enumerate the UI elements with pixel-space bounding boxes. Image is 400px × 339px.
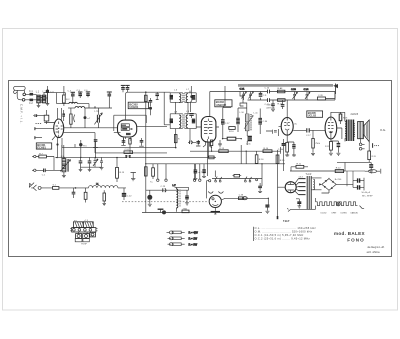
speaker return drop: [368, 142, 377, 163]
dial pointer pulley: [333, 84, 338, 95]
rectifier tube V7: [285, 182, 296, 193]
wire RF upper rail: [210, 92, 335, 117]
capacitor C3 on bus: [46, 89, 54, 104]
resistor R21 on B+: [291, 163, 308, 171]
tube V5 electrodes: [328, 117, 334, 139]
grid box left of V1: [44, 110, 49, 124]
coil core lines: [40, 95, 43, 102]
IFT2 left winding: [179, 115, 181, 128]
node vertical wire: [47, 86, 49, 104]
tube V3 pin wires: [196, 127, 219, 157]
phono rail: [212, 164, 262, 186]
oscillator trimmer CV3: [291, 89, 298, 100]
svg-text:1.TR: 1.TR: [94, 111, 99, 113]
osc caps common return: [81, 166, 102, 168]
vertical wire x207: [207, 139, 209, 176]
svg-text:UCL82: UCL82: [308, 114, 317, 118]
resistor under V2: [129, 139, 131, 153]
padder resistor R7: [318, 92, 336, 101]
long bus y164: [146, 163, 285, 165]
tube V1 electrodes: [56, 122, 63, 138]
phono jack box 2: [83, 234, 90, 239]
junction on mains: [75, 187, 77, 189]
IFT2 core: [183, 115, 184, 129]
ground at node: [46, 104, 50, 106]
tube V1 label box ECH81: [36, 143, 51, 150]
dark cap right of V1: [62, 110, 65, 121]
tuning gang section 1: [94, 108, 102, 128]
bottom jack circle: [162, 210, 166, 214]
coupling capacitor C17: [306, 128, 325, 137]
svg-text:TR.SP: TR.SP: [81, 244, 88, 246]
oscillator coil core arrow: [60, 159, 70, 172]
turntable motor circle: [209, 195, 221, 207]
tube V4 triode envelope: [281, 118, 293, 136]
output transformer primary winding: [345, 121, 346, 142]
pilot lamp: [336, 202, 340, 206]
resistor R8 phono: [36, 153, 54, 158]
bead right of label box: [149, 107, 152, 116]
coupling coil small: [69, 102, 77, 103]
capacitor C1: [26, 90, 37, 96]
series capacitor on upper rail: [265, 88, 270, 94]
switch contact single: [256, 179, 258, 181]
left margin bar 1: [34, 127, 36, 130]
legend row 2: [168, 237, 198, 241]
feed line y147.6: [146, 147, 176, 149]
osc coupling coil: [75, 107, 85, 109]
wire RF lower rail: [248, 99, 336, 101]
resistor under V3: [210, 140, 212, 152]
oscillator trimmer CV4: [304, 89, 311, 100]
ground under L1: [37, 103, 41, 108]
antenna plug jack 2: [22, 99, 25, 102]
tube V2 pin wires: [124, 127, 168, 142]
motor ground plate: [211, 208, 220, 215]
IFT2 left tuned circuit: [170, 114, 183, 129]
tube V3 electrodes: [204, 119, 212, 140]
frequency table bracket: [253, 227, 255, 241]
rail under V3: [209, 156, 214, 159]
resistor R5 on upper rail: [278, 87, 285, 93]
cap under V2 left: [121, 138, 125, 146]
phono input terminal 2: [32, 169, 36, 171]
resistor R2: [63, 86, 71, 106]
svg-text:R.AL: R.AL: [380, 129, 386, 132]
svg-text:UCL82: UCL82: [321, 213, 327, 215]
switch contact pair 2: [245, 177, 252, 183]
IFT2 right winding: [186, 115, 188, 128]
ground bus y162: [337, 162, 371, 171]
resistor R13 on feed: [219, 148, 228, 153]
IFT1 core: [183, 93, 184, 102]
mains resistor R17: [84, 188, 87, 203]
bottom return wire: [287, 208, 315, 211]
IFT1 right tuned circuit: [184, 93, 196, 103]
line to grid caps: [85, 106, 112, 108]
svg-text:SE + SP.SP: SE + SP.SP: [362, 196, 373, 198]
cap under V3 left: [196, 140, 200, 146]
filter cap C20: [369, 162, 373, 173]
chassis bar on bottom wire: [158, 209, 164, 212]
phono jack stems: [78, 232, 92, 234]
tube V1 pin wires: [35, 108, 118, 158]
cap right of label box: [149, 98, 152, 106]
ground osc2: [88, 167, 92, 172]
legend row 3: [168, 242, 198, 246]
coupling line after coil: [77, 104, 89, 108]
smoothing electrolytic: [296, 199, 301, 208]
switch contact pair 1: [215, 177, 222, 183]
osc trimmer C15: [93, 157, 104, 169]
schematic border frame: [9, 81, 392, 257]
detector transformer core: [250, 114, 251, 131]
tube V5 pin wires: [325, 112, 345, 141]
grid resistor drop: [311, 130, 321, 155]
resistor R4 right of IFT: [189, 86, 196, 118]
electrolytic on output: [265, 198, 269, 213]
svg-text:O.M. .........................: O.M. ............................ 520÷16…: [255, 230, 313, 234]
svg-text:FONO: FONO: [347, 237, 365, 242]
svg-text:C.2: C.2: [29, 102, 33, 105]
phono lower boxes: [75, 239, 89, 242]
tube V4 electrodes: [284, 118, 290, 135]
capacitor C29: [236, 114, 240, 128]
tube V4 pin wires: [279, 100, 307, 142]
electrolytic C31: [246, 136, 252, 145]
V3 feed rail: [190, 150, 281, 152]
svg-text:C.M.F. + I.L.: C.M.F. + I.L.: [20, 104, 24, 124]
phono jack box 3: [90, 232, 96, 237]
wire rail join: [334, 92, 336, 101]
dashed coupling line: [122, 201, 207, 203]
resistor R14 on feed: [263, 148, 272, 153]
resistor R22 on B+: [335, 168, 343, 173]
wire step down from rails: [240, 92, 244, 107]
dial cord line: [238, 85, 333, 86]
cap C21 after choke: [102, 190, 106, 205]
resistor R15 vertical: [116, 158, 125, 182]
screen pair lower: [125, 155, 131, 158]
cap drop at 157: [155, 92, 159, 99]
capacitor C6: [84, 90, 90, 97]
verticals detector feed: [241, 145, 280, 164]
svg-text:O.C.2 (25÷31,6 m) ........ 9,4: O.C.2 (25÷31,6 m) ........ 9,45÷12 MHz: [255, 236, 311, 240]
junction blob: [84, 108, 92, 128]
screen rail: [95, 152, 167, 154]
svg-text:T.B.P: T.B.P: [283, 219, 290, 223]
legend row 1: [167, 231, 199, 235]
detector wiring: [223, 108, 279, 145]
trimmer pot T: [131, 173, 136, 181]
speaker: [358, 120, 370, 142]
wire detector top: [223, 86, 247, 108]
svg-text:T.A.R: T.A.R: [306, 173, 312, 176]
lamp branch wire: [146, 187, 189, 194]
capacitor C30b: [258, 114, 268, 128]
V4 cathode resistor: [286, 142, 289, 155]
fuse box on mains: [41, 185, 75, 190]
electrolytic far right: [193, 164, 202, 181]
resistor R11: [222, 137, 242, 140]
phono jack box 1: [76, 234, 82, 239]
svg-text:ZXA: ZXA: [183, 207, 188, 210]
tube V2 UCH81 envelope: [118, 120, 137, 137]
phono connector hatched box 2: [83, 222, 93, 228]
svg-text:arch. ufficina: arch. ufficina: [367, 251, 381, 254]
detector transformer L10 L11: [245, 114, 249, 131]
svg-text:C.17: C.17: [306, 135, 311, 137]
V7 fan wires: [295, 179, 299, 195]
cathode resistor R19: [325, 142, 333, 156]
capacitor C23: [161, 186, 167, 192]
bead component on AVC: [79, 140, 87, 157]
svg-text:R.16: R.16: [259, 159, 264, 161]
dial cord end marker: [373, 143, 379, 148]
left margin dash: [36, 123, 42, 125]
osc capacitor C14: [88, 157, 92, 167]
svg-text:R ≈ 1W: R ≈ 1W: [189, 237, 198, 241]
capacitor C30 between rails: [259, 92, 267, 101]
junction dots on AVC: [116, 157, 117, 158]
svg-text:R.AF: R.AF: [278, 87, 284, 90]
phono output line: [221, 198, 268, 200]
electrolytic drop: [202, 164, 206, 178]
tube V3 UABC80 envelope: [201, 117, 216, 143]
electrolytic left of V4: [278, 139, 286, 171]
V2 enclosure wires: [114, 115, 147, 132]
svg-text:R.25: R.25: [280, 160, 285, 162]
phono connector hatched box 1: [73, 222, 83, 228]
phono input terminal 1: [32, 155, 36, 157]
junction and drop x145.8: [145, 91, 147, 93]
tube V2 electrodes: [121, 118, 133, 139]
svg-text:C.27: C.27: [225, 123, 230, 125]
svg-text:ECH81: ECH81: [37, 146, 46, 150]
svg-text:R.22: R.22: [336, 168, 341, 170]
IFT1 right winding: [186, 94, 188, 103]
svg-text:C.10: C.10: [265, 88, 270, 90]
left margin bar 2: [35, 136, 42, 139]
long vertical wire: [145, 154, 147, 212]
svg-text:R.10: R.10: [229, 131, 234, 133]
osc capacitor C13: [79, 157, 83, 167]
phono terminal: [207, 180, 211, 199]
electrolytic right of L7: [185, 190, 189, 205]
svg-text:R ≈ 3W: R ≈ 3W: [189, 242, 198, 246]
power transformer core: [307, 176, 311, 209]
coupling line lower: [57, 103, 69, 105]
dial lamp: [147, 195, 152, 207]
resistor R25 vertical: [276, 155, 285, 164]
reservoir capacitor pair: [353, 178, 364, 191]
IFT2 right drop with cap: [188, 129, 199, 144]
capacitor C5: [77, 90, 83, 98]
capacitor C27: [221, 114, 230, 128]
svg-text:R.14: R.14: [264, 148, 269, 150]
output transformer core: [346, 120, 353, 142]
svg-text:B+250: B+250: [335, 179, 342, 181]
left margin cap stub: [33, 114, 44, 117]
resistor R10: [229, 127, 235, 133]
svg-text:C.V4: C.V4: [304, 89, 310, 91]
mains cap C17: [72, 188, 76, 198]
screen pair upper: [124, 149, 133, 153]
grid cap with T: [258, 183, 262, 193]
junction: [268, 198, 269, 199]
detector transformer arrow: [244, 116, 253, 130]
svg-text:C.1: C.1: [29, 90, 33, 93]
HT secondary loop: [312, 178, 322, 190]
svg-text:R ≈ 4|W: R ≈ 4|W: [189, 231, 199, 235]
svg-text:C.30: C.30: [263, 121, 268, 123]
resistor R16 vertical: [255, 151, 264, 164]
svg-text:R.15: R.15: [120, 172, 125, 174]
resistor R6 on lower rail: [278, 99, 286, 106]
svg-text:O.L. .........................: O.L. .................................. …: [255, 226, 317, 230]
bottom wire with lamp: [142, 212, 262, 214]
resistor above rail: [233, 174, 242, 177]
capacitor C7: [107, 92, 112, 108]
svg-text:UCH81: UCH81: [129, 105, 138, 109]
svg-text:50+50 µF: 50+50 µF: [362, 192, 371, 194]
svg-text:C.23: C.23: [161, 186, 166, 188]
tube V5 output envelope: [325, 117, 337, 139]
osc coupling line: [68, 107, 75, 109]
anode resistor box: [70, 108, 75, 128]
capacitor C2: [25, 99, 37, 105]
svg-text:C.31: C.31: [246, 144, 251, 146]
svg-text:C.22: C.22: [127, 196, 132, 198]
tie point circles: [157, 164, 201, 182]
dropper cap below lower rail: [271, 100, 275, 111]
coil L7 vertical: [173, 185, 181, 212]
filament choke winding: [76, 183, 127, 188]
ground T under V3: [218, 140, 222, 146]
cap under V2 right: [139, 138, 144, 146]
IFT1 left tuned circuit: [170, 93, 183, 103]
resistor R18: [339, 112, 348, 124]
svg-text:C.V1: C.V1: [240, 89, 246, 91]
svg-text:2xAV/5: 2xAV/5: [351, 113, 359, 116]
svg-text:UCH81: UCH81: [341, 213, 347, 215]
dropper cap 2: [281, 100, 285, 109]
svg-text:UF89: UF89: [332, 213, 337, 215]
cap with T bar: [93, 140, 98, 158]
fuse component on line: [238, 195, 247, 200]
phono connector base strip: [70, 228, 97, 232]
vertical feed x277: [278, 150, 286, 219]
tube V2 label box UCH81: [128, 102, 148, 109]
svg-text:mod. BALEX: mod. BALEX: [334, 231, 365, 236]
IFT2 connection stubs: [164, 92, 170, 125]
resistor on vertical: [145, 167, 148, 176]
svg-text:R.13: R.13: [219, 148, 224, 150]
AVC bus: [56, 156, 217, 158]
antenna plug jack 1: [23, 93, 26, 96]
IFT1 left winding: [179, 94, 181, 103]
svg-text:R.21: R.21: [297, 163, 302, 165]
wire L2 to node: [46, 97, 48, 99]
svg-text:da disegni A.+M.: da disegni A.+M.: [367, 246, 384, 249]
terminal blob x277: [277, 216, 279, 219]
tuning gang trimmer CV2: [249, 92, 254, 101]
B+ fuse: [345, 169, 381, 187]
pickup rest hooks: [208, 191, 223, 193]
junction dots AVC: [63, 157, 64, 158]
osc wiring: [62, 145, 66, 178]
tube V5 label box UCL82: [307, 111, 323, 118]
output transformer secondary winding: [354, 123, 355, 136]
capacitor C12 phono: [36, 159, 62, 177]
corner line to IFT1: [126, 92, 171, 118]
antenna coil L1: [37, 95, 40, 103]
tuning gang trimmer CV1: [240, 89, 247, 101]
series capacitor on lower rail: [265, 98, 270, 106]
svg-text:1.6.3: 1.6.3: [299, 177, 303, 179]
IFT1 connection stubs: [176, 91, 191, 114]
mains plug arrow: [29, 183, 41, 191]
wire R1 drop: [56, 93, 58, 104]
svg-text:C.28: C.28: [318, 95, 323, 97]
ground osc1: [79, 167, 83, 172]
capacitor C4: [68, 91, 76, 104]
bridge rectifier B250/C75: [319, 178, 353, 193]
V7 socket tap bars: [299, 179, 306, 195]
wire connecting top row: [44, 93, 65, 96]
electrolytic C22: [122, 188, 132, 200]
bottom fuse box: [182, 207, 189, 212]
V4 cathode cap: [285, 142, 296, 156]
svg-text:O.C.1 (41÷50,5 m) 5,95÷7,40: O.C.1 (41÷50,5 m) 5,95÷7,40 MHz: [255, 233, 304, 237]
cathode bypass C19: [331, 141, 341, 155]
resistor drop from bus: [150, 164, 154, 184]
oscillator coil L3: [62, 159, 66, 172]
heater winding chain: [316, 198, 365, 209]
B+ feed stub: [62, 138, 146, 147]
IFT2 right tuned circuit: [184, 114, 196, 129]
svg-text:C.V3: C.V3: [291, 89, 297, 91]
B+ line lower: [290, 170, 345, 172]
capacitor C8 near V2 grid: [121, 85, 125, 92]
tube V3 label box: [215, 100, 232, 107]
antenna coil L2: [42, 95, 45, 103]
svg-text:UABC80: UABC80: [351, 212, 358, 215]
antenna pickup arm: [14, 86, 26, 100]
tube V1 ECH81 envelope: [54, 119, 64, 138]
output terminals: [359, 139, 364, 150]
capacitor C9 near V2: [125, 85, 129, 92]
IFT2 left drop with resistor: [174, 129, 180, 149]
V1 cathode bend: [56, 156, 58, 159]
